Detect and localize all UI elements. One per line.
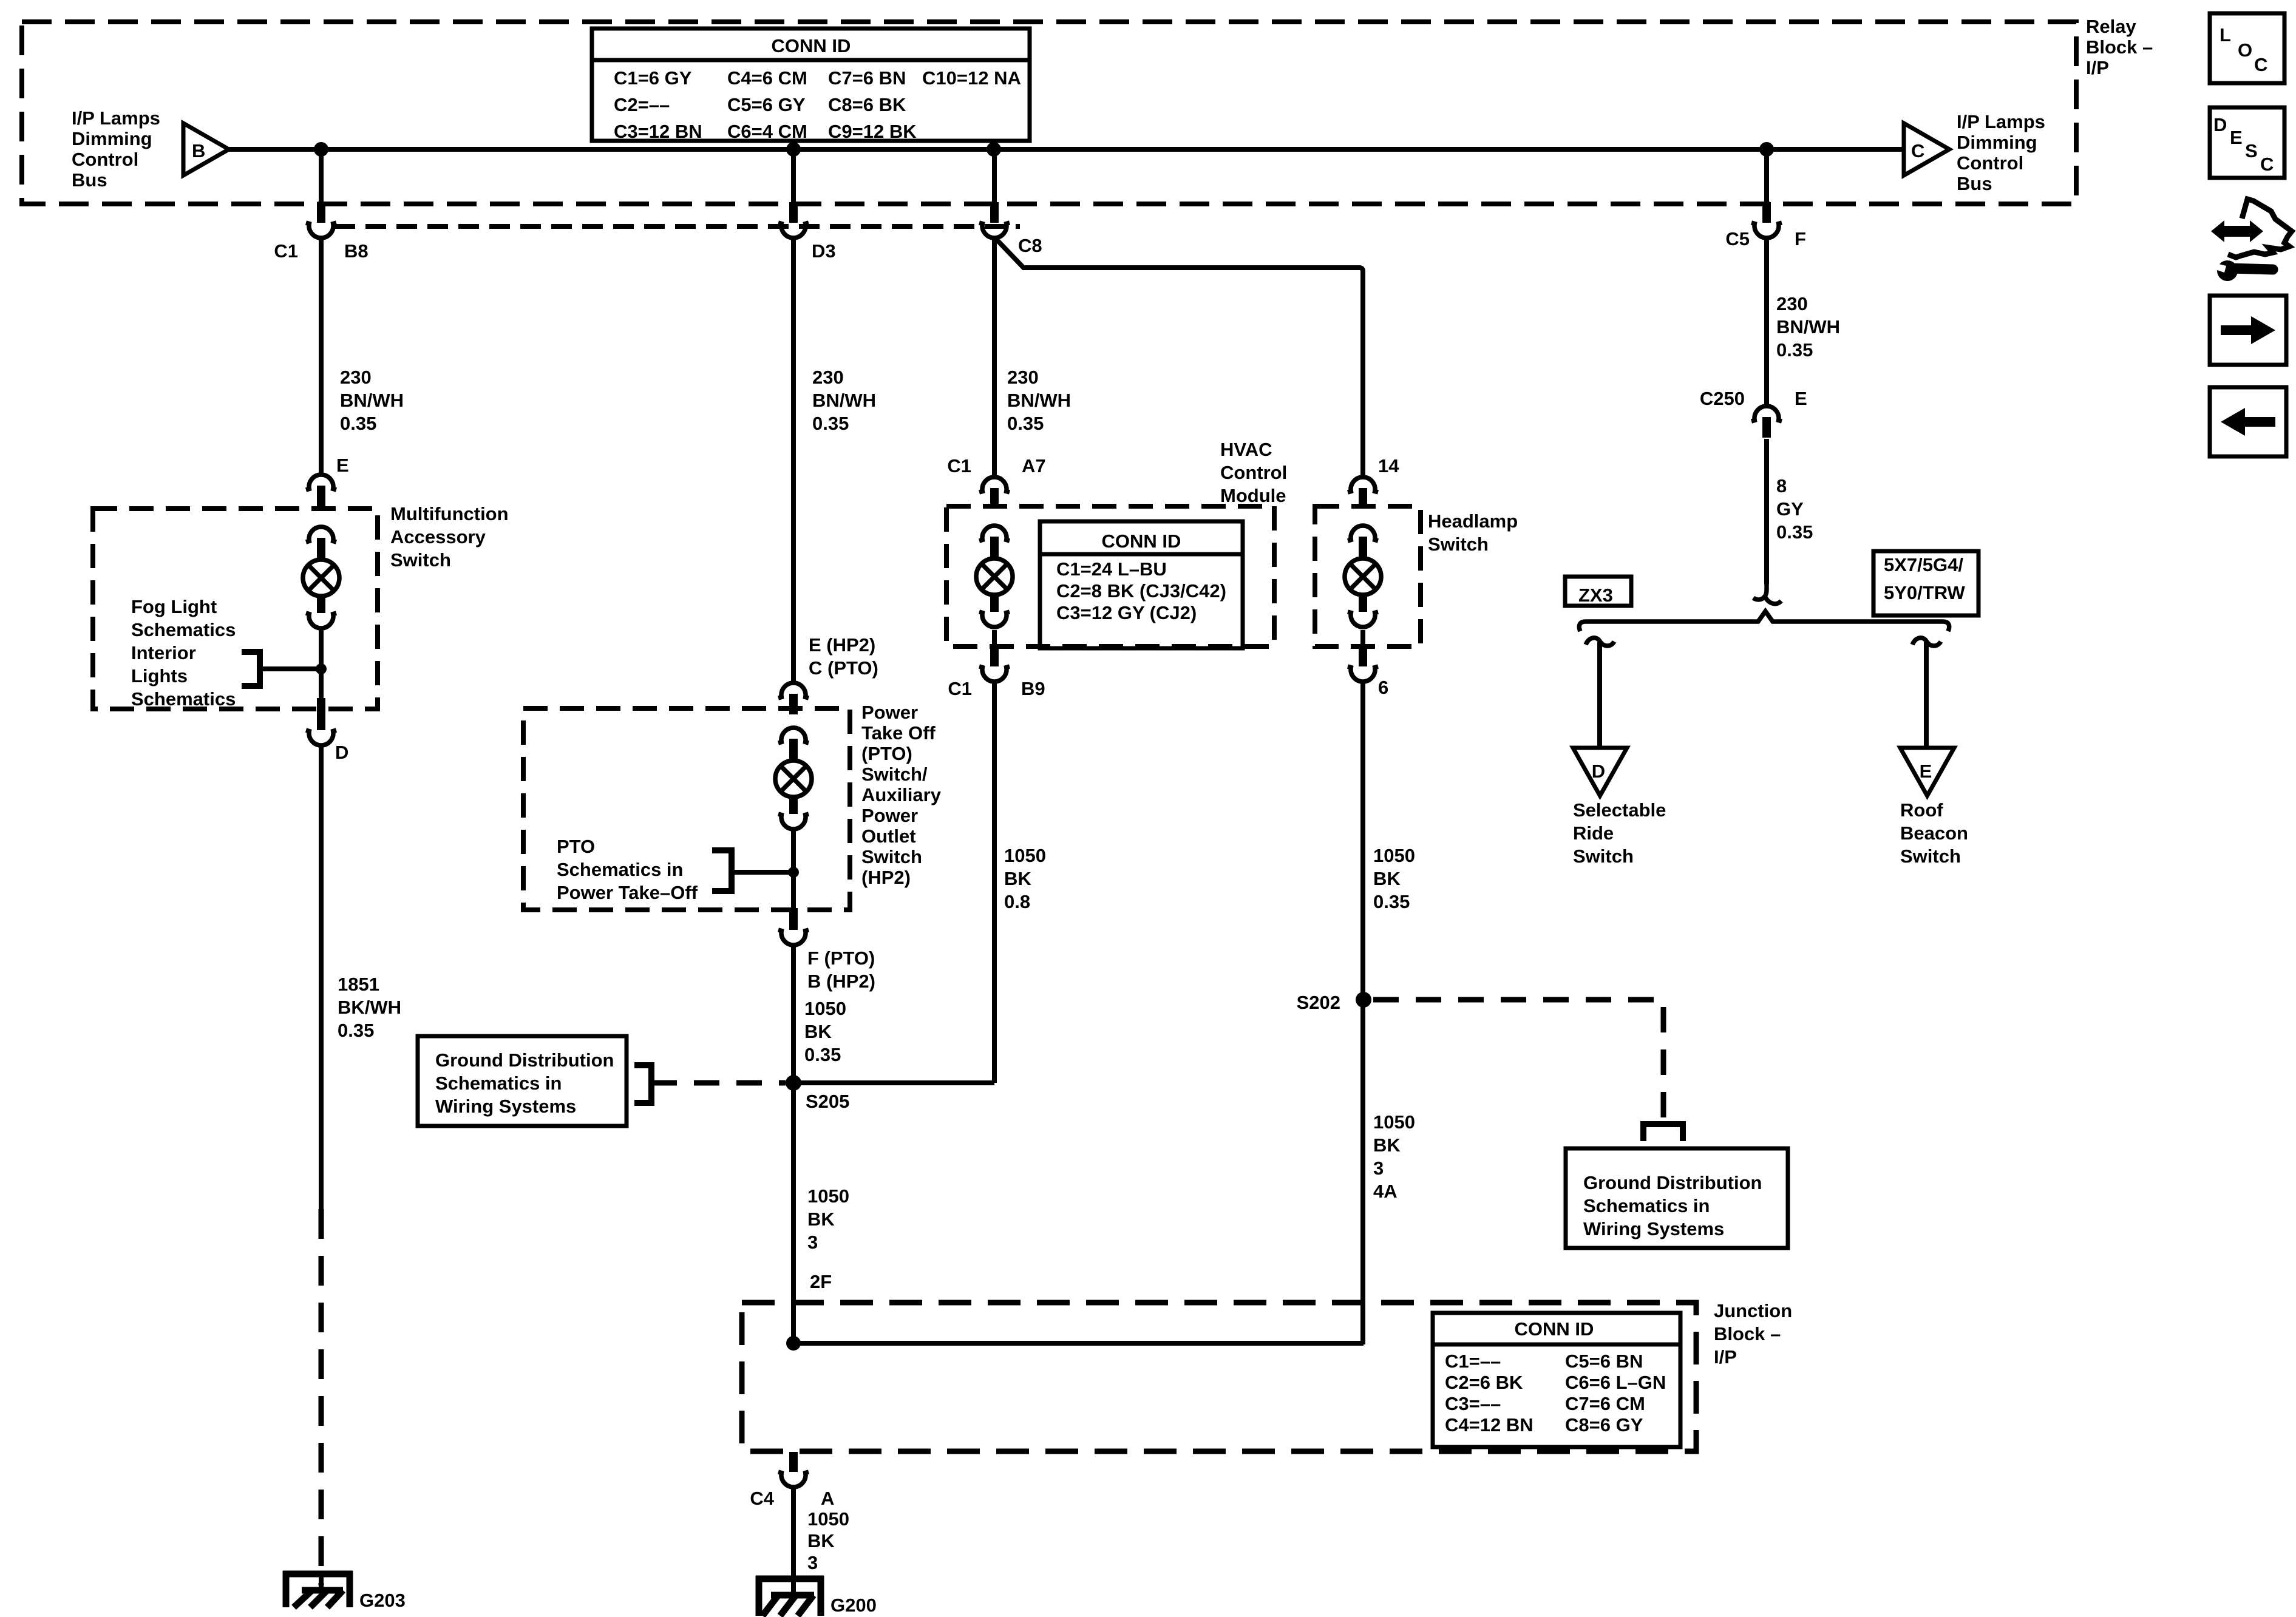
svg-text:BK: BK bbox=[807, 1209, 835, 1230]
svg-text:C5=6 GY: C5=6 GY bbox=[727, 94, 806, 115]
svg-text:D: D bbox=[1592, 761, 1605, 782]
svg-text:3: 3 bbox=[807, 1552, 818, 1573]
svg-text:Ground Distribution: Ground Distribution bbox=[1583, 1172, 1762, 1193]
svg-text:(HP2): (HP2) bbox=[861, 867, 911, 888]
svg-text:Dimming: Dimming bbox=[1957, 132, 2037, 153]
ground G200 bbox=[756, 1576, 877, 1616]
svg-text:1050: 1050 bbox=[804, 998, 846, 1019]
connector D3 bbox=[778, 202, 836, 262]
svg-text:O: O bbox=[2238, 39, 2252, 61]
ground distribution bracket bbox=[634, 1065, 651, 1103]
svg-text:Power Take–Off: Power Take–Off bbox=[557, 882, 698, 903]
wire to roof beacon switch triangle bbox=[1924, 642, 1929, 748]
wire lamp to D connector bbox=[319, 628, 324, 709]
svg-text:C4=6 CM: C4=6 CM bbox=[727, 67, 807, 89]
svg-text:C9=12 BK: C9=12 BK bbox=[828, 121, 917, 142]
branch wire C8 to headlamp switch bbox=[996, 239, 1363, 476]
svg-text:Take Off: Take Off bbox=[861, 722, 936, 744]
HVAC control module dashed box bbox=[946, 506, 1274, 646]
connector C1/B8 bbox=[274, 202, 368, 262]
svg-text:Switch: Switch bbox=[1900, 846, 1961, 867]
svg-text:1851: 1851 bbox=[338, 974, 379, 995]
svg-text:1050: 1050 bbox=[807, 1185, 849, 1207]
svg-text:Accessory: Accessory bbox=[390, 526, 486, 547]
svg-text:BK/WH: BK/WH bbox=[338, 997, 401, 1018]
icon double-arrow with wrench (navigation) bbox=[2211, 199, 2292, 281]
svg-text:1050: 1050 bbox=[1373, 1111, 1415, 1133]
relay table row 3 bbox=[614, 121, 917, 142]
indicator lamp (multifunction switch) bbox=[303, 527, 339, 628]
wire lamp to connector 6 bbox=[1360, 630, 1365, 648]
svg-text:230: 230 bbox=[340, 367, 372, 388]
svg-text:C250: C250 bbox=[1700, 388, 1745, 409]
Junction Block - I/P label bbox=[1714, 1300, 1792, 1368]
svg-text:F: F bbox=[1795, 228, 1806, 249]
svg-text:1050: 1050 bbox=[1004, 845, 1046, 866]
svg-text:Multifunction: Multifunction bbox=[390, 503, 509, 524]
svg-text:C2=8 BK (CJ3/C42): C2=8 BK (CJ3/C42) bbox=[1056, 580, 1226, 602]
svg-text:1050: 1050 bbox=[1373, 845, 1415, 866]
wire label 8 GY 0.35 bbox=[1776, 475, 1813, 543]
wire label 230 BN/WH 0.35 (HVAC branch) bbox=[1007, 367, 1071, 434]
wire label 1050 BK 3 (to G200) bbox=[807, 1508, 849, 1573]
left option squiggle bbox=[1586, 638, 1614, 646]
svg-text:Schematics in: Schematics in bbox=[1583, 1195, 1710, 1216]
bus junction node at C1 drop bbox=[314, 142, 328, 157]
reference bracket (down) bbox=[1643, 1124, 1683, 1141]
svg-text:Module: Module bbox=[1220, 485, 1286, 506]
svg-text:C5: C5 bbox=[1725, 228, 1750, 249]
svg-text:C1: C1 bbox=[948, 678, 972, 699]
bus junction node at C8 drop bbox=[987, 142, 1001, 157]
svg-text:D3: D3 bbox=[812, 240, 836, 262]
svg-text:BN/WH: BN/WH bbox=[1776, 316, 1840, 337]
wire D3 down to PTO entry bbox=[791, 237, 796, 682]
I/P Lamps Dimming Control Bus label (left) bbox=[72, 107, 160, 191]
svg-text:G203: G203 bbox=[359, 1590, 406, 1611]
wire end squiggle bbox=[1753, 580, 1767, 600]
wire label 230 BN/WH 0.35 (PTO branch) bbox=[812, 367, 876, 434]
svg-text:0.35: 0.35 bbox=[1007, 413, 1044, 434]
svg-text:E: E bbox=[1920, 761, 1932, 782]
indicator lamp (headlamp switch) bbox=[1345, 526, 1381, 627]
svg-text:Switch: Switch bbox=[390, 549, 451, 571]
dashed wire to G203 bbox=[319, 1209, 324, 1585]
svg-text:BK: BK bbox=[807, 1530, 835, 1551]
svg-text:Control: Control bbox=[72, 149, 138, 170]
svg-text:C6=4 CM: C6=4 CM bbox=[727, 121, 807, 142]
svg-text:B (HP2): B (HP2) bbox=[807, 971, 875, 992]
svg-text:Switch: Switch bbox=[1428, 534, 1489, 555]
5X7/5G4/5Y0/TRW option box bbox=[1873, 551, 1978, 615]
svg-text:C5=6 BN: C5=6 BN bbox=[1565, 1351, 1643, 1372]
connector C250/E bbox=[1700, 388, 1807, 438]
bus junction node at C5 drop bbox=[1759, 142, 1774, 157]
svg-text:C3=––: C3=–– bbox=[1445, 1393, 1501, 1414]
wire F/B to S205 bbox=[791, 944, 796, 1083]
selectable ride switch label bbox=[1573, 799, 1666, 867]
svg-text:0.35: 0.35 bbox=[812, 413, 849, 434]
connector E into multifunction switch bbox=[306, 455, 349, 506]
svg-text:C3=12 GY (CJ2): C3=12 GY (CJ2) bbox=[1056, 602, 1197, 623]
svg-text:0.35: 0.35 bbox=[338, 1020, 374, 1041]
svg-text:B9: B9 bbox=[1021, 678, 1045, 699]
connector E(HP2)/C(PTO) into PTO switch bbox=[778, 683, 809, 714]
svg-text:0.35: 0.35 bbox=[1776, 521, 1813, 543]
option brace bbox=[1579, 611, 1949, 631]
svg-text:E: E bbox=[1795, 388, 1807, 409]
svg-text:CONN ID: CONN ID bbox=[1102, 531, 1181, 552]
bus junction node at D3 drop bbox=[786, 142, 801, 157]
CONN ID table (relay block) bbox=[592, 29, 1030, 141]
svg-text:3: 3 bbox=[1373, 1158, 1384, 1179]
splice S202 bbox=[1356, 992, 1371, 1008]
svg-text:0.8: 0.8 bbox=[1004, 891, 1030, 912]
wire label 230 BN/WH 0.35 (fog branch) bbox=[340, 367, 404, 434]
wire label 1851 BK/WH 0.35 bbox=[338, 974, 401, 1041]
svg-text:0.35: 0.35 bbox=[804, 1044, 841, 1065]
icon DESC box bbox=[2210, 107, 2284, 178]
svg-text:Bus: Bus bbox=[1957, 173, 1992, 194]
connector C5/F bbox=[1725, 202, 1806, 249]
svg-text:D: D bbox=[335, 742, 348, 763]
svg-text:1050: 1050 bbox=[807, 1508, 849, 1530]
svg-text:S202: S202 bbox=[1297, 992, 1340, 1013]
svg-text:B: B bbox=[192, 140, 205, 161]
svg-text:0.35: 0.35 bbox=[1373, 891, 1410, 912]
svg-text:14: 14 bbox=[1378, 455, 1399, 476]
svg-text:I/P: I/P bbox=[2086, 57, 2109, 78]
svg-text:C8=6 BK: C8=6 BK bbox=[828, 94, 906, 115]
connector C8 bbox=[979, 202, 1042, 256]
svg-text:I/P: I/P bbox=[1714, 1346, 1737, 1368]
svg-text:BN/WH: BN/WH bbox=[1007, 390, 1071, 411]
svg-text:G200: G200 bbox=[830, 1595, 877, 1616]
svg-text:5Y0/TRW: 5Y0/TRW bbox=[1884, 582, 1966, 603]
svg-text:Switch: Switch bbox=[1573, 846, 1634, 867]
svg-text:PTO: PTO bbox=[557, 836, 595, 857]
wire C1/B9 down to S205 bbox=[992, 683, 997, 1083]
svg-text:Block –: Block – bbox=[1714, 1323, 1781, 1344]
svg-text:GY: GY bbox=[1776, 498, 1804, 520]
svg-text:C4: C4 bbox=[750, 1488, 774, 1509]
svg-text:Dimming: Dimming bbox=[72, 128, 152, 149]
fog light reference bracket bbox=[242, 652, 260, 686]
svg-text:Schematics in: Schematics in bbox=[435, 1073, 562, 1094]
svg-text:C8=6 GY: C8=6 GY bbox=[1565, 1414, 1643, 1436]
svg-text:Switch/: Switch/ bbox=[861, 764, 928, 785]
svg-text:BK: BK bbox=[1004, 868, 1031, 889]
destination triangle D bbox=[1573, 748, 1627, 796]
wire to selectable ride switch triangle bbox=[1597, 642, 1602, 748]
relay table row 1 bbox=[614, 67, 1021, 89]
I/P Lamps Dimming Control Bus label (right) bbox=[1957, 111, 2045, 194]
indicator lamp (PTO switch) bbox=[775, 728, 812, 829]
pin labels F (PTO) / B (HP2) bbox=[807, 947, 875, 992]
svg-text:C1=6 GY: C1=6 GY bbox=[614, 67, 692, 89]
svg-text:BK: BK bbox=[1373, 1134, 1401, 1156]
svg-text:Junction: Junction bbox=[1714, 1300, 1792, 1321]
I/P lamps dimming control bus wire bbox=[229, 147, 1904, 152]
svg-text:Fog Light: Fog Light bbox=[131, 596, 217, 617]
wire C1/B8 to E connector bbox=[319, 237, 324, 475]
ground distribution reference box (right) bbox=[1566, 1148, 1788, 1248]
svg-text:ZX3: ZX3 bbox=[1578, 585, 1613, 606]
svg-text:(PTO): (PTO) bbox=[861, 743, 912, 764]
PTO reference tap wire bbox=[732, 870, 793, 875]
connector F(PTO)/B(HP2) bbox=[778, 908, 809, 945]
svg-text:C2=––: C2=–– bbox=[614, 94, 670, 115]
svg-text:C7=6 CM: C7=6 CM bbox=[1565, 1393, 1645, 1414]
svg-text:3: 3 bbox=[807, 1232, 818, 1253]
wire label 1050 BK 0.35 (headlamp ground) bbox=[1373, 845, 1415, 912]
wire bus to C1/B8 connector bbox=[319, 149, 324, 203]
svg-text:C (PTO): C (PTO) bbox=[809, 657, 878, 679]
svg-text:C1: C1 bbox=[274, 240, 298, 262]
connector C1/A7 into HVAC bbox=[947, 455, 1045, 509]
bus destination triangle C bbox=[1904, 123, 1949, 175]
junction table col 2 bbox=[1565, 1351, 1666, 1436]
svg-text:L: L bbox=[2220, 24, 2231, 46]
PTO schematics reference label bbox=[557, 836, 698, 903]
svg-text:CONN ID: CONN ID bbox=[1515, 1318, 1594, 1340]
wire 6 to S202 bbox=[1360, 683, 1365, 1344]
svg-text:C: C bbox=[2260, 154, 2274, 175]
junction block internal node bbox=[786, 1336, 801, 1351]
svg-text:Roof: Roof bbox=[1900, 799, 1943, 821]
wire C5/F to C250 bbox=[1764, 237, 1769, 405]
multifunction switch label bbox=[390, 503, 509, 571]
icon LOC box bbox=[2210, 13, 2284, 83]
node on switch wire (fog tap) bbox=[316, 663, 327, 674]
multifunction accessory switch dashed box bbox=[93, 509, 378, 709]
svg-text:B8: B8 bbox=[344, 240, 369, 262]
svg-text:E: E bbox=[336, 455, 349, 476]
svg-text:C8: C8 bbox=[1018, 235, 1042, 256]
PTO switch dashed box bbox=[523, 708, 850, 910]
svg-text:Schematics in: Schematics in bbox=[557, 859, 683, 880]
wire bus to D3 connector bbox=[791, 149, 796, 203]
connector C4/A (junction block exit) bbox=[750, 1452, 834, 1509]
right option squiggle bbox=[1912, 638, 1941, 646]
svg-text:C2=6 BK: C2=6 BK bbox=[1445, 1372, 1523, 1393]
svg-text:BN/WH: BN/WH bbox=[812, 390, 876, 411]
wire D to dashed section bbox=[319, 747, 324, 1209]
svg-text:Control: Control bbox=[1220, 462, 1287, 483]
connector C1/B9 (HVAC exit) bbox=[948, 646, 1045, 699]
svg-text:Control: Control bbox=[1957, 152, 2023, 174]
wire label 1050 BK 3 (to junction block) bbox=[807, 1185, 849, 1253]
svg-text:C3=12 BN: C3=12 BN bbox=[614, 121, 702, 142]
svg-text:HVAC: HVAC bbox=[1220, 439, 1272, 460]
svg-text:Headlamp: Headlamp bbox=[1428, 510, 1518, 532]
icon back arrow box bbox=[2210, 387, 2286, 456]
HVAC table rows bbox=[1056, 558, 1226, 623]
svg-text:BK: BK bbox=[804, 1021, 832, 1042]
svg-text:E: E bbox=[2230, 127, 2243, 148]
svg-text:8: 8 bbox=[1776, 475, 1787, 497]
connector 6 (headlamp exit) bbox=[1348, 646, 1388, 698]
wire C250 to option split bbox=[1764, 439, 1769, 584]
junction block internal bus wire bbox=[793, 1341, 1364, 1346]
wire label 230 BN/WH 0.35 (right) bbox=[1776, 293, 1840, 361]
junction block I/P dashed box bbox=[742, 1303, 1696, 1451]
CONN ID table (junction block) bbox=[1433, 1313, 1680, 1447]
node on switch wire (PTO tap) bbox=[788, 867, 799, 878]
wire lamp to C1/B9 bbox=[992, 630, 997, 648]
fog light reference tap wire bbox=[260, 666, 321, 671]
svg-text:5X7/5G4/: 5X7/5G4/ bbox=[1884, 554, 1963, 575]
svg-text:C: C bbox=[2254, 54, 2267, 75]
headlamp switch label bbox=[1428, 510, 1518, 555]
indicator lamp (HVAC) bbox=[976, 526, 1013, 627]
svg-text:230: 230 bbox=[1776, 293, 1808, 314]
svg-text:6: 6 bbox=[1378, 677, 1388, 698]
svg-text:Schematics: Schematics bbox=[131, 619, 236, 640]
wire label 1050 BK 0.8 bbox=[1004, 845, 1046, 912]
dashed reference from S202 bbox=[1373, 1000, 1663, 1119]
svg-text:Ride: Ride bbox=[1573, 822, 1614, 844]
wire lamp to F/B connector bbox=[791, 829, 796, 908]
relay block I/P dashed enclosure bbox=[22, 22, 2076, 204]
wire label 1050 BK 3 4A bbox=[1373, 1111, 1415, 1202]
svg-text:F (PTO): F (PTO) bbox=[807, 947, 875, 969]
wire bus to C5/F connector bbox=[1764, 149, 1769, 203]
wire S205 down to junction block bbox=[791, 1083, 796, 1344]
svg-text:Bus: Bus bbox=[72, 169, 107, 191]
svg-text:Lights: Lights bbox=[131, 665, 188, 686]
bus source triangle B bbox=[183, 123, 229, 175]
fog light schematics reference label bbox=[131, 596, 236, 710]
svg-text:BK: BK bbox=[1373, 868, 1401, 889]
wire C4/A to G200 bbox=[791, 1486, 796, 1579]
wire label 1050 BK 0.35 (PTO ground wire) bbox=[804, 998, 846, 1065]
junction table col 1 bbox=[1445, 1351, 1533, 1436]
svg-text:Relay: Relay bbox=[2086, 16, 2136, 37]
wire S205 junction to HVAC branch bbox=[793, 1080, 994, 1085]
svg-text:Interior: Interior bbox=[131, 642, 196, 663]
svg-text:Power: Power bbox=[861, 805, 918, 826]
svg-text:C: C bbox=[1911, 140, 1924, 161]
svg-text:CONN ID: CONN ID bbox=[772, 35, 851, 56]
svg-text:Switch: Switch bbox=[861, 846, 922, 867]
svg-text:230: 230 bbox=[1007, 367, 1039, 388]
svg-text:2F: 2F bbox=[810, 1271, 832, 1292]
svg-text:Beacon: Beacon bbox=[1900, 822, 1968, 844]
svg-text:230: 230 bbox=[812, 367, 844, 388]
svg-text:Selectable: Selectable bbox=[1573, 799, 1666, 821]
ground distribution reference box (left) bbox=[418, 1036, 627, 1126]
connector 14 into headlamp switch bbox=[1348, 477, 1378, 509]
svg-text:C1=24 L–BU: C1=24 L–BU bbox=[1056, 558, 1167, 580]
svg-text:Outlet: Outlet bbox=[861, 825, 916, 847]
svg-text:C1: C1 bbox=[947, 455, 971, 476]
splice S205 bbox=[786, 1075, 801, 1091]
Relay Block - I/P label bbox=[2086, 16, 2153, 78]
svg-text:0.35: 0.35 bbox=[340, 413, 376, 434]
headlamp switch dashed box bbox=[1315, 506, 1421, 646]
ZX3 option box bbox=[1565, 577, 1631, 606]
pin labels E (HP2) / C (PTO) bbox=[809, 634, 878, 679]
svg-text:I/P Lamps: I/P Lamps bbox=[1957, 111, 2045, 132]
svg-text:C4=12 BN: C4=12 BN bbox=[1445, 1414, 1533, 1436]
HVAC control module label bbox=[1220, 439, 1287, 506]
PTO switch label bbox=[861, 702, 942, 888]
svg-text:D: D bbox=[2213, 114, 2227, 135]
icon forward arrow box bbox=[2210, 296, 2286, 365]
svg-text:I/P Lamps: I/P Lamps bbox=[72, 107, 160, 129]
svg-text:A7: A7 bbox=[1022, 455, 1046, 476]
svg-text:E (HP2): E (HP2) bbox=[809, 634, 875, 656]
svg-text:S: S bbox=[2245, 140, 2258, 161]
wire C8 to HVAC entry bbox=[992, 237, 997, 476]
destination triangle E bbox=[1900, 748, 1954, 796]
ground G203 bbox=[283, 1571, 406, 1611]
fine dotted line between C1 and C8 connectors bbox=[335, 224, 1020, 229]
svg-text:0.35: 0.35 bbox=[1776, 339, 1813, 361]
svg-text:Auxiliary: Auxiliary bbox=[861, 784, 942, 805]
svg-text:Block –: Block – bbox=[2086, 36, 2153, 58]
roof beacon switch label bbox=[1900, 799, 1968, 867]
svg-text:Ground Distribution: Ground Distribution bbox=[435, 1049, 614, 1071]
svg-text:C1=––: C1=–– bbox=[1445, 1351, 1501, 1372]
svg-text:A: A bbox=[821, 1488, 834, 1509]
svg-text:Wiring Systems: Wiring Systems bbox=[1583, 1218, 1724, 1239]
svg-text:4A: 4A bbox=[1373, 1181, 1398, 1202]
wire bus to C8 connector bbox=[992, 149, 997, 203]
CONN ID table (HVAC) bbox=[1040, 521, 1243, 648]
relay table row 2 bbox=[614, 94, 906, 115]
connector D (multifunction exit) bbox=[306, 698, 348, 763]
svg-text:BN/WH: BN/WH bbox=[340, 390, 404, 411]
dashed reference line to S205 bbox=[651, 1080, 786, 1086]
svg-text:S205: S205 bbox=[806, 1091, 849, 1112]
PTO reference bracket bbox=[712, 850, 732, 891]
svg-text:Power: Power bbox=[861, 702, 918, 723]
svg-text:Schematics: Schematics bbox=[131, 688, 236, 710]
svg-text:C7=6 BN: C7=6 BN bbox=[828, 67, 906, 89]
svg-text:C10=12 NA: C10=12 NA bbox=[922, 67, 1021, 89]
svg-text:Wiring Systems: Wiring Systems bbox=[435, 1096, 576, 1117]
svg-text:C6=6 L–GN: C6=6 L–GN bbox=[1565, 1372, 1666, 1393]
